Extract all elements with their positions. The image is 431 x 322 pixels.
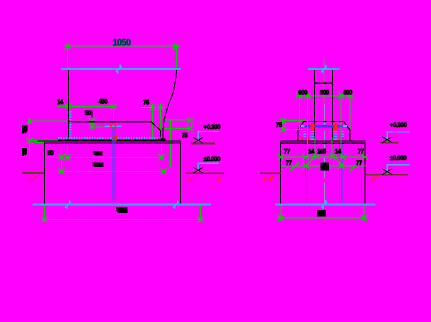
svg-text:450: 450 [99,99,109,105]
svg-text:+0.300: +0.300 [390,122,408,129]
svg-text:600: 600 [343,90,353,96]
svg-text:600: 600 [298,90,308,96]
svg-text:165: 165 [317,149,327,155]
svg-text:±0.000: ±0.000 [204,156,221,163]
svg-text:±0.000: ±0.000 [390,155,407,162]
svg-text:1050: 1050 [113,37,132,47]
svg-text:300: 300 [320,90,330,96]
svg-text:+0.300: +0.300 [204,124,222,131]
